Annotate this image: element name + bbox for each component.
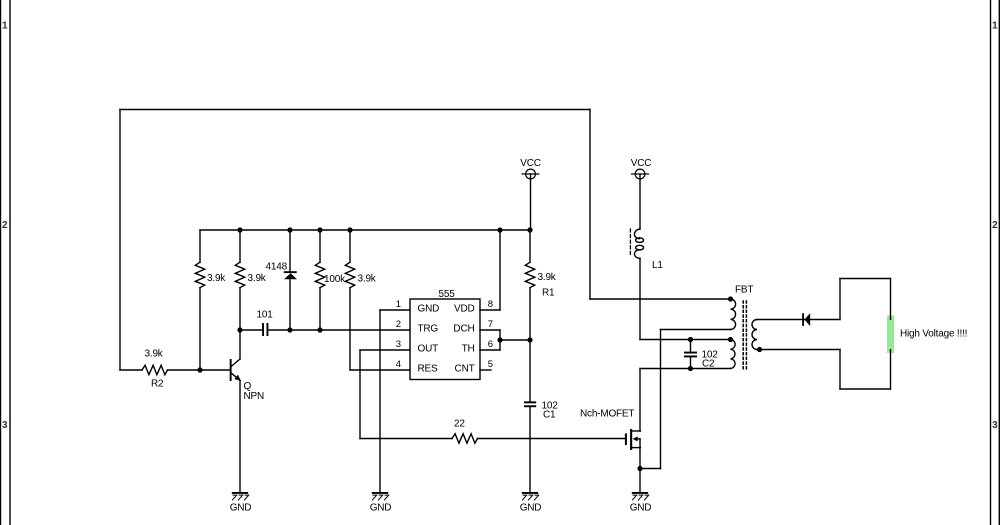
svg-text:101: 101 <box>257 310 274 321</box>
svg-text:2: 2 <box>396 319 401 330</box>
svg-text:3: 3 <box>2 420 8 431</box>
svg-text:GND: GND <box>630 503 652 514</box>
svg-text:3: 3 <box>992 420 998 431</box>
svg-text:1: 1 <box>992 21 998 32</box>
svg-text:VDD: VDD <box>454 304 475 315</box>
svg-text:3.9k: 3.9k <box>248 273 267 284</box>
svg-text:R1: R1 <box>542 288 555 299</box>
svg-text:2: 2 <box>2 220 8 231</box>
svg-text:555: 555 <box>439 289 456 300</box>
svg-text:OUT: OUT <box>418 344 439 355</box>
svg-text:Nch-MOFET: Nch-MOFET <box>580 409 634 420</box>
svg-text:R2: R2 <box>151 379 164 390</box>
svg-text:2: 2 <box>992 220 998 231</box>
svg-text:3.9k: 3.9k <box>358 274 377 285</box>
svg-text:DCH: DCH <box>453 324 474 335</box>
svg-text:VCC: VCC <box>520 158 541 169</box>
svg-text:GND: GND <box>370 503 392 514</box>
svg-text:4148: 4148 <box>266 262 288 273</box>
svg-text:RES: RES <box>418 364 438 375</box>
svg-text:7: 7 <box>488 319 493 330</box>
svg-text:3: 3 <box>396 339 401 350</box>
svg-text:4: 4 <box>396 359 401 370</box>
svg-text:100k: 100k <box>324 274 346 285</box>
svg-text:1: 1 <box>396 299 401 310</box>
svg-text:TRG: TRG <box>418 324 439 335</box>
svg-text:1: 1 <box>2 21 8 32</box>
svg-text:CNT: CNT <box>455 364 475 375</box>
svg-text:3.9k: 3.9k <box>538 272 557 283</box>
svg-text:3.9k: 3.9k <box>145 349 164 360</box>
svg-text:6: 6 <box>488 339 493 350</box>
svg-text:L1: L1 <box>652 260 663 271</box>
svg-text:High Voltage !!!!: High Voltage !!!! <box>900 329 967 340</box>
svg-text:C1: C1 <box>543 410 556 421</box>
svg-text:FBT: FBT <box>735 285 753 296</box>
svg-text:8: 8 <box>488 299 493 310</box>
svg-text:3.9k: 3.9k <box>207 273 226 284</box>
svg-text:GND: GND <box>230 503 252 514</box>
svg-text:NPN: NPN <box>244 391 265 402</box>
svg-text:22: 22 <box>454 419 465 430</box>
svg-text:VCC: VCC <box>631 158 652 169</box>
svg-text:TH: TH <box>462 344 475 355</box>
svg-text:GND: GND <box>418 304 440 315</box>
svg-text:C2: C2 <box>702 359 715 370</box>
svg-text:5: 5 <box>488 359 493 370</box>
svg-text:GND: GND <box>520 503 542 514</box>
